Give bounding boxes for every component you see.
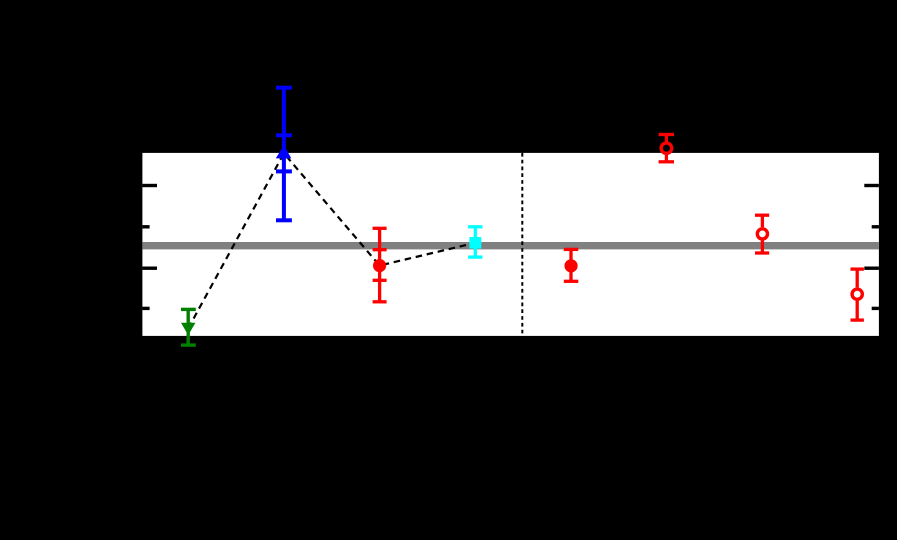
red filled circle marker 1 [373,259,386,272]
dashed connecting polyline [188,153,475,328]
blue point inner error bar caps [276,135,292,171]
right axis major tick 1 [864,184,879,187]
green down-triangle marker [181,323,195,335]
red filled circle marker 2 [564,259,577,272]
left axis minor tick 2 [142,307,149,310]
left axis major tick 1 [142,184,157,187]
red filled point 2 error bar [564,249,579,281]
dashed vertical separator line [521,153,523,336]
red open point 1 error bar [659,135,674,162]
red open circle marker 3 [852,289,862,299]
right axis major tick 2 [864,267,879,270]
cyan filled square marker [469,237,481,249]
cyan point error bar [468,227,482,257]
red open circle marker 1 [661,143,672,154]
blue point outer error bar [276,88,292,221]
red filled point 1 error bars [373,228,387,301]
plot area [142,153,879,336]
green point error bar [181,309,196,345]
gray reference line [142,242,879,249]
blue up-triangle marker [276,145,292,158]
right axis minor tick 1 [872,225,879,228]
red open point 3 error bar [851,269,864,320]
right axis minor tick 2 [872,307,879,310]
left axis major tick 2 [142,267,157,270]
red open circle marker 2 [757,229,767,239]
red open point 2 error bar [755,215,769,253]
left axis minor tick 1 [142,225,149,228]
